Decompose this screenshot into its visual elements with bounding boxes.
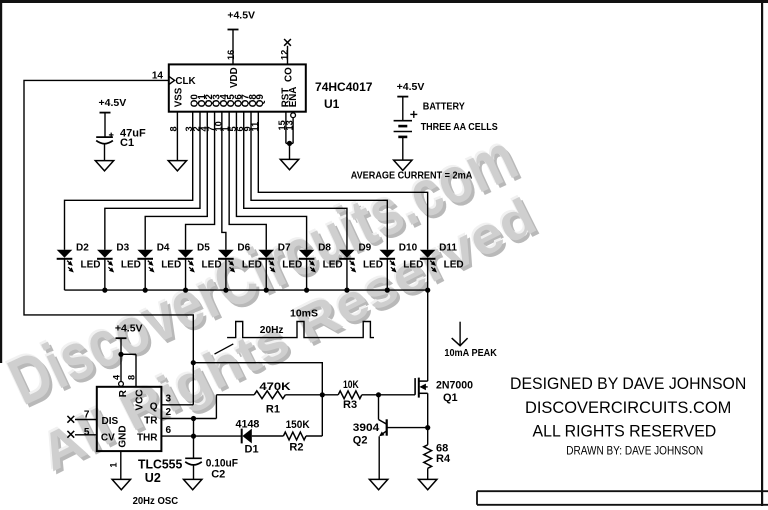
U2 CV no-connect xyxy=(75,434,97,436)
svg-text:VCC: VCC xyxy=(135,389,146,410)
svg-text:AVERAGE CURRENT = 2mA: AVERAGE CURRENT = 2mA xyxy=(351,171,473,182)
ground RST/ENA xyxy=(280,159,298,169)
svg-text:4148: 4148 xyxy=(236,418,260,430)
capacitor C1 47uF xyxy=(96,136,113,138)
ground U2 xyxy=(112,479,130,489)
svg-text:LED: LED xyxy=(323,259,343,270)
svg-text:GND: GND xyxy=(118,425,129,447)
svg-text:D7: D7 xyxy=(278,243,291,254)
node source R4 base xyxy=(425,425,430,430)
svg-text:R1: R1 xyxy=(266,403,280,415)
svg-text:R2: R2 xyxy=(289,442,303,454)
watermark All Rights Reserved xyxy=(29,186,548,486)
svg-text:10K: 10K xyxy=(343,379,359,391)
LED D10 xyxy=(380,250,396,258)
svg-text:Q2: Q2 xyxy=(353,434,368,446)
LED D4 xyxy=(137,250,153,258)
svg-text:+4.5V: +4.5V xyxy=(397,81,425,93)
battery B1 three AA cells xyxy=(394,120,412,122)
U2 Q pin wire xyxy=(161,404,193,406)
svg-text:2: 2 xyxy=(165,407,171,418)
LED D3 xyxy=(97,250,113,258)
ground C2 xyxy=(184,479,202,489)
resistor R2 150K xyxy=(283,432,306,440)
svg-text:1: 1 xyxy=(109,463,119,468)
LED D8 xyxy=(299,250,315,258)
U2 GND pin wire xyxy=(120,451,122,479)
ground R4 xyxy=(419,479,437,489)
svg-text:D8: D8 xyxy=(318,243,331,254)
svg-text:LED: LED xyxy=(161,259,181,270)
op IC U1 74HC4017 box xyxy=(169,64,306,111)
wire 20Hz line to gate node xyxy=(193,363,322,395)
U1 VSS ground stub xyxy=(176,112,178,161)
LED D5 xyxy=(178,250,194,258)
wire CLK feedback from 555 xyxy=(24,80,193,404)
svg-text:BATTERY: BATTERY xyxy=(423,102,465,113)
svg-text:THREE AA CELLS: THREE AA CELLS xyxy=(421,122,498,133)
svg-text:8: 8 xyxy=(127,375,137,380)
node rail D10 xyxy=(385,288,390,293)
U2 TR pin wire xyxy=(161,418,216,420)
svg-text:ALL RIGHTS RESERVED: ALL RIGHTS RESERVED xyxy=(533,423,717,441)
svg-text:LED: LED xyxy=(282,259,302,270)
svg-text:DISCOVERCIRCUITS.COM: DISCOVERCIRCUITS.COM xyxy=(525,399,731,417)
svg-text:D1: D1 xyxy=(245,444,259,456)
svg-text:LED: LED xyxy=(363,259,383,270)
ground C1 xyxy=(95,161,113,171)
svg-text:D5: D5 xyxy=(197,243,210,254)
svg-text:LED: LED xyxy=(444,259,464,270)
svg-text:THR: THR xyxy=(137,432,158,443)
U2 DIS no-connect xyxy=(75,419,97,421)
ground VSS xyxy=(168,161,186,171)
svg-text:C2: C2 xyxy=(211,469,225,481)
wire TR/THR to C2 xyxy=(193,419,195,459)
node rail D6 xyxy=(223,288,228,293)
svg-text:DESIGNED BY DAVE JOHNSON: DESIGNED BY DAVE JOHNSON xyxy=(510,375,746,393)
svg-text:6: 6 xyxy=(165,425,171,436)
node rail D3 xyxy=(102,288,107,293)
svg-text:10mA PEAK: 10mA PEAK xyxy=(444,347,497,359)
svg-text:0.10uF: 0.10uF xyxy=(206,457,239,469)
svg-text:150K: 150K xyxy=(286,419,310,431)
U1 ENA inversion bubble xyxy=(291,113,296,118)
svg-text:+4.5V: +4.5V xyxy=(99,97,127,109)
svg-text:5: 5 xyxy=(84,427,90,438)
node R3 gate Q2 collector xyxy=(376,392,381,397)
wire Q9 to LED D11 xyxy=(258,112,427,250)
svg-text:D9: D9 xyxy=(358,243,371,254)
svg-text:R3: R3 xyxy=(343,399,357,411)
diode D1 4148 xyxy=(241,429,243,444)
transistor Q2 3904 xyxy=(378,395,380,420)
arrow 10mA peak xyxy=(459,322,461,345)
op IC U2 TLC555 box xyxy=(97,387,162,451)
U1 pin CLK label and clock arrow xyxy=(169,76,175,84)
svg-text:D11: D11 xyxy=(439,243,457,254)
svg-text:LED: LED xyxy=(403,259,423,270)
wire Q1 source xyxy=(427,393,429,427)
svg-text:R: R xyxy=(118,389,129,397)
svg-text:D6: D6 xyxy=(237,243,250,254)
node rail right end xyxy=(425,288,430,293)
wire Q0 to LED D2 xyxy=(65,112,193,250)
node Q output junction xyxy=(191,360,196,365)
svg-text:LED: LED xyxy=(242,259,262,270)
page border right bar xyxy=(761,0,763,506)
svg-text:Q: Q xyxy=(150,402,158,413)
page border left bar xyxy=(0,0,2,363)
U1 RST ENA ground wires xyxy=(285,112,287,144)
U1 pin12 CO no-connect stub xyxy=(287,46,289,65)
U2 R pin inversion bubble xyxy=(119,382,124,387)
wire Q1 to LED D3 xyxy=(105,112,200,250)
wire Q5 to LED D7 xyxy=(229,112,266,250)
svg-text:4: 4 xyxy=(112,374,122,380)
LED D6 xyxy=(218,250,234,258)
ground Q2 emitter xyxy=(369,479,387,489)
svg-text:D2: D2 xyxy=(76,243,89,254)
LED D9 xyxy=(339,250,355,258)
svg-text:470K: 470K xyxy=(259,381,290,393)
wire Q6 to LED D8 xyxy=(236,112,306,250)
waveform 20Hz pulses xyxy=(227,322,374,338)
LED D2 xyxy=(57,250,73,258)
resistor R4 68 xyxy=(424,445,432,469)
wire LED cathode rail xyxy=(65,289,428,291)
node rail D5 xyxy=(183,288,188,293)
wire Q7 to LED D9 xyxy=(244,112,347,250)
node rail D4 xyxy=(143,288,148,293)
svg-text:+4.5V: +4.5V xyxy=(227,9,255,21)
svg-text:LED: LED xyxy=(121,259,141,270)
svg-text:D4: D4 xyxy=(157,243,170,254)
LED D11 xyxy=(420,250,436,258)
svg-text:+4.5V: +4.5V xyxy=(115,323,143,335)
svg-text:2N7000: 2N7000 xyxy=(436,379,473,391)
resistor R3 10K xyxy=(322,394,338,396)
svg-text:16: 16 xyxy=(226,50,236,60)
svg-text:10mS: 10mS xyxy=(290,308,318,320)
svg-text:R4: R4 xyxy=(436,453,451,465)
svg-text:Q9: Q9 xyxy=(255,94,266,108)
svg-text:TR: TR xyxy=(144,416,158,427)
page border top bar xyxy=(0,0,768,3)
svg-text:TLC555: TLC555 xyxy=(138,458,182,472)
svg-text:20Hz OSC: 20Hz OSC xyxy=(133,496,179,507)
wire Q3 to LED D5 xyxy=(186,112,215,250)
svg-text:LED: LED xyxy=(81,259,101,270)
transistor Q1 2N7000 xyxy=(414,378,416,395)
svg-text:3: 3 xyxy=(165,394,171,405)
svg-text:74HC4017: 74HC4017 xyxy=(315,80,373,94)
wire Q8 to LED D10 xyxy=(251,112,387,250)
svg-text:VDD: VDD xyxy=(229,67,240,88)
svg-text:ENA: ENA xyxy=(288,87,299,108)
wire Q1 drain xyxy=(427,290,429,381)
wire waveform pointer xyxy=(215,344,234,354)
svg-text:U1: U1 xyxy=(324,97,340,111)
node gate junction xyxy=(320,392,325,397)
svg-text:VSS: VSS xyxy=(173,87,184,107)
node rail D9 xyxy=(344,288,349,293)
node rail D8 xyxy=(304,288,309,293)
resistor R1 470K xyxy=(215,395,217,419)
capacitor C2 0.10uF xyxy=(185,457,202,459)
U2 THR pin wire xyxy=(161,435,241,437)
svg-text:D10: D10 xyxy=(399,243,418,254)
node rail D7 xyxy=(264,288,269,293)
svg-text:DIS: DIS xyxy=(102,416,119,427)
svg-text:CV: CV xyxy=(101,433,115,444)
svg-text:20Hz: 20Hz xyxy=(260,324,284,336)
svg-text:DRAWN BY: DAVE JOHNSON: DRAWN BY: DAVE JOHNSON xyxy=(566,444,703,458)
svg-text:D3: D3 xyxy=(116,243,129,254)
LED D7 xyxy=(258,250,274,258)
svg-text:C1: C1 xyxy=(120,137,134,149)
title block box bottom right xyxy=(477,491,768,505)
svg-text:CLK: CLK xyxy=(175,76,195,87)
svg-text:Q1: Q1 xyxy=(443,392,458,404)
svg-text:3904: 3904 xyxy=(353,422,380,434)
svg-text:LED: LED xyxy=(202,259,222,270)
svg-text:U2: U2 xyxy=(145,471,161,485)
ground battery xyxy=(394,160,412,170)
watermark DiscoverCircuits.com xyxy=(0,117,530,422)
wire Q2 to LED D4 xyxy=(145,112,207,250)
wire Q4 to LED D6 xyxy=(222,112,226,250)
svg-text:CO: CO xyxy=(284,67,295,82)
